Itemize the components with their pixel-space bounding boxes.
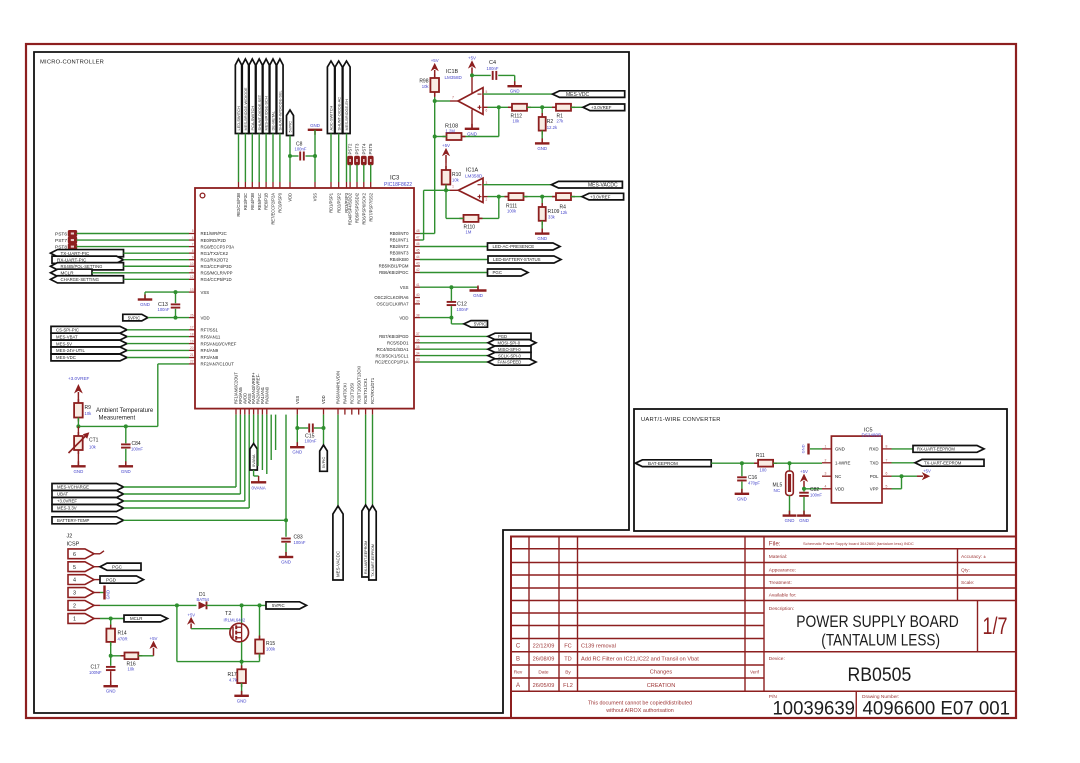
svg-text:RD5/PSP5/SDI2: RD5/PSP5/SDI2 — [355, 192, 360, 223]
svg-text:GND: GND — [510, 89, 520, 94]
svg-text:+3.0VREF: +3.0VREF — [590, 194, 611, 199]
svg-text:1M: 1M — [466, 230, 472, 235]
svg-text:Changes: Changes — [650, 670, 673, 676]
svg-text:1/7: 1/7 — [983, 613, 1008, 640]
svg-text:RG4/CCP5/P1D: RG4/CCP5/P1D — [201, 277, 232, 282]
svg-text:RE0/RD/P2D: RE0/RD/P2D — [201, 238, 226, 243]
svg-text:45: 45 — [416, 249, 420, 253]
svg-text:10: 10 — [190, 262, 194, 266]
svg-text:RB5/KBI1/PGM: RB5/KBI1/PGM — [379, 264, 409, 269]
svg-text:VDD: VDD — [201, 315, 210, 320]
svg-text:RD2/PSP2: RD2/PSP2 — [336, 192, 341, 213]
svg-text:POWER SUPPLY BOARD: POWER SUPPLY BOARD — [796, 612, 959, 631]
svg-text:RF7/SS1: RF7/SS1 — [201, 328, 219, 333]
svg-text:RB2/INT2: RB2/INT2 — [390, 244, 409, 249]
svg-text:+5V: +5V — [923, 469, 931, 474]
svg-text:RF2/AN7/C1OUT: RF2/AN7/C1OUT — [201, 362, 235, 367]
svg-text:Scale:: Scale: — [961, 580, 974, 586]
svg-text:NC: NC — [835, 474, 841, 479]
svg-text:RB0/INT0: RB0/INT0 — [390, 231, 409, 236]
svg-text:GND: GND — [292, 450, 302, 455]
svg-text:PST2: PST2 — [348, 143, 353, 155]
svg-text:FAN-SPEED: FAN-SPEED — [498, 360, 522, 365]
svg-text:Date: Date — [538, 670, 548, 676]
svg-text:5VPIC: 5VPIC — [128, 315, 140, 320]
svg-text:Material:: Material: — [769, 554, 787, 560]
svg-text:+3.0VREF: +3.0VREF — [57, 499, 77, 504]
svg-text:Verif: Verif — [750, 670, 760, 675]
svg-text:38: 38 — [416, 313, 420, 317]
svg-text:Description:: Description: — [769, 606, 794, 612]
svg-text:10039639: 10039639 — [773, 699, 856, 720]
svg-text:BATTERY-TEMP: BATTERY-TEMP — [57, 518, 90, 523]
svg-text:RB4/KBI0: RB4/KBI0 — [390, 257, 409, 262]
svg-text:Add RC Filter on IC21,IC22 and: Add RC Filter on IC21,IC22 and Transil o… — [581, 657, 699, 663]
svg-text:without AIROX authorisation: without AIROX authorisation — [605, 708, 673, 714]
svg-text:3: 3 — [73, 591, 76, 597]
svg-text:PIC18F8622: PIC18F8622 — [384, 182, 412, 188]
svg-text:MOSI-SPI-0: MOSI-SPI-0 — [498, 341, 521, 346]
svg-text:BAT-EEPROM: BAT-EEPROM — [648, 461, 678, 466]
svg-text:MES-BRIDGE-EH: MES-BRIDGE-EH — [344, 99, 349, 131]
svg-text:By: By — [565, 670, 571, 676]
svg-text:RC7/RX1/DT1: RC7/RX1/DT1 — [370, 377, 375, 404]
svg-text:GND: GND — [835, 447, 845, 452]
svg-text:SCLK-SPI-0: SCLK-SPI-0 — [498, 353, 521, 358]
svg-text:1: 1 — [73, 617, 76, 623]
svg-text:33k: 33k — [548, 215, 556, 220]
svg-text:POL: POL — [870, 474, 879, 479]
svg-text:RG1/TX2/CK2: RG1/TX2/CK2 — [201, 251, 229, 256]
svg-text:VDD: VDD — [288, 193, 293, 202]
svg-text:26/08/09: 26/08/09 — [533, 657, 555, 663]
svg-text:ICSP: ICSP — [67, 542, 80, 548]
svg-text:12k: 12k — [561, 210, 569, 215]
svg-text:470pF: 470pF — [748, 480, 760, 485]
svg-text:Rev: Rev — [514, 670, 523, 676]
svg-text:9: 9 — [192, 255, 194, 259]
svg-text:+5V: +5V — [800, 469, 808, 474]
svg-text:18: 18 — [190, 332, 194, 336]
svg-text:DS2480B: DS2480B — [862, 432, 882, 437]
svg-text:GND: GND — [74, 469, 84, 474]
svg-text:44: 44 — [416, 255, 420, 259]
svg-text:RC6/TX1/CK1: RC6/TX1/CK1 — [363, 377, 368, 404]
svg-text:PGD: PGD — [498, 334, 507, 339]
svg-text:RG3/CCP4/P3D: RG3/CCP4/P3D — [201, 264, 232, 269]
svg-text:J2: J2 — [67, 534, 73, 540]
svg-text:GND: GND — [801, 444, 806, 453]
svg-text:IRLML6402: IRLML6402 — [224, 617, 246, 622]
svg-text:MES-24V-UTIL: MES-24V-UTIL — [56, 348, 86, 353]
svg-text:RG0/ECCP3 P3A: RG0/ECCP3 P3A — [201, 244, 235, 249]
svg-text:2: 2 — [825, 458, 827, 462]
svg-text:RC4/SDI1/SDA1: RC4/SDI1/SDA1 — [377, 347, 409, 352]
svg-text:RA0/AN0: RA0/AN0 — [264, 386, 269, 404]
svg-text:RB7/KBI3/PGD: RB7/KBI3/PGD — [379, 334, 408, 339]
svg-text:(TANTALUM LESS): (TANTALUM LESS) — [821, 631, 940, 650]
svg-text:7: 7 — [452, 95, 454, 99]
svg-text:35: 35 — [416, 345, 420, 349]
svg-text:47: 47 — [416, 236, 420, 240]
svg-text:PCA-SWITCH: PCA-SWITCH — [250, 106, 255, 131]
svg-text:LED-AC-PRESENCE: LED-AC-PRESENCE — [493, 244, 535, 249]
svg-text:100k: 100k — [266, 647, 276, 652]
svg-text:CHARGE-SETTING: CHARGE-SETTING — [61, 277, 100, 282]
svg-text:MISO-SPI-0: MISO-SPI-0 — [498, 347, 521, 352]
svg-text:Available for:: Available for: — [769, 593, 797, 599]
svg-text:RF5/AN10/CVREF: RF5/AN10/CVREF — [201, 341, 237, 346]
svg-text:MICRO-CONTROLLER: MICRO-CONTROLLER — [40, 60, 104, 66]
svg-text:RC3/SCK1/SCL1: RC3/SCK1/SCL1 — [376, 353, 410, 358]
svg-text:TD: TD — [564, 657, 571, 663]
svg-text:PGC: PGC — [112, 564, 123, 569]
svg-text:FL2: FL2 — [563, 683, 573, 689]
svg-text:LM358D: LM358D — [445, 75, 463, 80]
svg-text:SHUNT-DIODE-AC: SHUNT-DIODE-AC — [336, 97, 341, 131]
svg-text:RE5/P1C: RE5/P1C — [257, 193, 262, 210]
svg-text:RS485/POL-SETTING: RS485/POL-SETTING — [61, 264, 103, 269]
svg-text:7: 7 — [886, 458, 888, 462]
svg-text:GND: GND — [467, 131, 477, 136]
svg-text:22: 22 — [190, 360, 194, 364]
svg-text:8: 8 — [886, 444, 888, 448]
svg-text:10k: 10k — [422, 84, 430, 89]
svg-text:+5V: +5V — [150, 636, 158, 641]
svg-text:100nF: 100nF — [158, 307, 170, 312]
svg-text:MES-VACDC: MES-VACDC — [336, 551, 341, 577]
svg-text:37: 37 — [416, 332, 420, 336]
svg-text:GND: GND — [799, 518, 809, 523]
svg-text:RG5/MCLR/VPP: RG5/MCLR/VPP — [201, 271, 233, 276]
svg-text:LM358D: LM358D — [465, 174, 483, 179]
svg-text:27k: 27k — [557, 119, 565, 124]
svg-text:C: C — [516, 644, 521, 650]
svg-text:1-WIRE: 1-WIRE — [835, 461, 850, 466]
svg-text:RD4/PSP4/SDO2: RD4/PSP4/SDO2 — [348, 192, 353, 225]
svg-text:R11: R11 — [756, 453, 765, 459]
svg-text:TXD: TXD — [870, 461, 879, 466]
svg-text:Treatment:: Treatment: — [769, 580, 792, 586]
svg-text:0VANA: 0VANA — [252, 486, 266, 491]
svg-text:VPP: VPP — [870, 487, 879, 492]
svg-text:+3.0VREF: +3.0VREF — [591, 105, 612, 110]
svg-text:SHUNT-W/DIODE-SEL: SHUNT-W/DIODE-SEL — [278, 89, 283, 130]
svg-text:TX-UART-EEPROM: TX-UART-EEPROM — [371, 544, 375, 577]
svg-text:MES-BRIDGE-SCH: MES-BRIDGE-SCH — [264, 96, 269, 130]
svg-text:RC0/PSP0: RC0/PSP0 — [278, 192, 283, 213]
svg-text:48: 48 — [416, 229, 420, 233]
svg-text:T2: T2 — [225, 611, 231, 617]
svg-text:1: 1 — [825, 444, 827, 448]
svg-text:PST3: PST3 — [355, 143, 360, 155]
svg-text:GND: GND — [537, 146, 547, 151]
svg-text:LED-SWITCH: LED-SWITCH — [236, 106, 241, 130]
svg-text:RA4/T0CKI: RA4/T0CKI — [343, 383, 348, 404]
svg-text:10k: 10k — [89, 445, 97, 450]
svg-text:100nF: 100nF — [487, 66, 499, 71]
svg-text:OSC2/CLKO/RA6: OSC2/CLKO/RA6 — [374, 295, 409, 300]
svg-text:2: 2 — [73, 604, 76, 610]
svg-text:GND: GND — [537, 236, 547, 241]
svg-text:MES-5V: MES-5V — [56, 341, 72, 346]
svg-text:Measurement: Measurement — [99, 416, 136, 422]
svg-text:100nF: 100nF — [295, 147, 307, 152]
svg-text:PGD: PGD — [106, 577, 117, 582]
svg-text:TX-UART-EEPROM: TX-UART-EEPROM — [924, 461, 962, 466]
svg-text:4: 4 — [73, 578, 76, 584]
svg-text:VDD: VDD — [399, 315, 408, 320]
svg-text:VSS: VSS — [201, 290, 210, 295]
svg-text:100: 100 — [760, 467, 768, 472]
svg-text:RE1/WR/P2C: RE1/WR/P2C — [201, 231, 227, 236]
svg-text:RE4/P3B: RE4/P3B — [250, 193, 255, 210]
svg-text:B: B — [516, 657, 520, 663]
svg-text:MES-VDC: MES-VDC — [566, 92, 589, 98]
svg-text:RX-UART-EEPROM: RX-UART-EEPROM — [364, 541, 368, 574]
svg-text:IC1B: IC1B — [446, 69, 459, 75]
svg-text:ADC-SWITCH: ADC-SWITCH — [329, 105, 334, 130]
svg-text:GND: GND — [785, 518, 795, 523]
svg-text:This document cannot be copied: This document cannot be copied/distribut… — [588, 701, 692, 707]
svg-text:RX-UART-EEPROM: RX-UART-EEPROM — [917, 447, 955, 452]
svg-text:470R: 470R — [118, 636, 128, 641]
svg-text:5VPIC: 5VPIC — [321, 457, 326, 469]
svg-text:34: 34 — [416, 351, 420, 355]
svg-text:12.2k: 12.2k — [547, 125, 558, 130]
svg-text:UBAT: UBAT — [57, 492, 69, 497]
svg-text:MES-VACDC: MES-VACDC — [588, 182, 618, 188]
svg-text:MES-3.3V: MES-3.3V — [57, 506, 77, 511]
svg-text:+5V: +5V — [442, 143, 450, 148]
svg-text:VSS: VSS — [400, 285, 409, 290]
svg-text:41: 41 — [416, 283, 420, 287]
svg-text:VSS: VSS — [295, 396, 300, 404]
svg-text:TX-UART-PIC: TX-UART-PIC — [61, 251, 90, 256]
svg-text:40: 40 — [416, 293, 420, 297]
svg-text:VSS: VSS — [313, 193, 318, 201]
svg-text:BAT54: BAT54 — [197, 597, 210, 602]
svg-text:GND: GND — [121, 469, 131, 474]
svg-text:RE2/CS/P3B: RE2/CS/P3B — [236, 193, 241, 217]
svg-text:GND: GND — [106, 689, 116, 694]
svg-text:+3.0VREF: +3.0VREF — [68, 376, 90, 381]
svg-text:100nF: 100nF — [131, 447, 143, 452]
svg-text:NC: NC — [774, 488, 781, 493]
svg-text:10k: 10k — [128, 667, 136, 672]
svg-text:MCLR: MCLR — [130, 616, 142, 621]
svg-text:5: 5 — [73, 565, 76, 571]
svg-text:GND: GND — [737, 496, 747, 501]
svg-text:6: 6 — [886, 472, 888, 476]
svg-text:RE3/P3C: RE3/P3C — [243, 193, 248, 210]
svg-text:PST5: PST5 — [368, 143, 373, 155]
svg-text:+5V: +5V — [468, 55, 476, 60]
svg-text:1: 1 — [452, 185, 454, 189]
svg-text:21: 21 — [190, 353, 194, 357]
svg-text:VDD: VDD — [835, 487, 844, 492]
svg-text:Ambient Temperature: Ambient Temperature — [96, 408, 154, 414]
svg-text:RB1/INT1: RB1/INT1 — [390, 238, 409, 243]
svg-text:10k: 10k — [452, 178, 460, 183]
svg-text:36: 36 — [416, 339, 420, 343]
svg-text:Qty:: Qty: — [961, 568, 970, 574]
svg-text:100NF: 100NF — [89, 670, 102, 675]
svg-text:Schematic Power Supply board 3: Schematic Power Supply board 3642600 (ta… — [803, 541, 914, 546]
svg-text:12: 12 — [190, 275, 194, 279]
svg-text:6: 6 — [192, 236, 194, 240]
svg-text:RE6/P1B: RE6/P1B — [264, 193, 269, 210]
svg-text:A: A — [516, 683, 520, 689]
svg-text:20: 20 — [190, 346, 194, 350]
svg-text:5VPIC: 5VPIC — [288, 121, 293, 133]
svg-text:100nF: 100nF — [810, 492, 822, 497]
svg-text:26/05/09: 26/05/09 — [533, 683, 555, 689]
svg-text:22/12/09: 22/12/09 — [533, 644, 555, 650]
svg-text:IC3: IC3 — [390, 176, 400, 182]
svg-text:SHUNT-DIODE-SET: SHUNT-DIODE-SET — [257, 94, 262, 130]
svg-text:1.2M: 1.2M — [446, 129, 456, 134]
svg-text:MES-BRIDGE-W/DIODE: MES-BRIDGE-W/DIODE — [243, 87, 248, 130]
svg-text:100nF: 100nF — [305, 439, 317, 444]
svg-text:PST7: PST7 — [55, 238, 67, 244]
svg-text:19: 19 — [190, 339, 194, 343]
svg-text:DE-METAL: DE-METAL — [271, 110, 276, 130]
svg-text:RX-UART-PIC: RX-UART-PIC — [57, 257, 87, 262]
svg-text:4: 4 — [825, 484, 827, 488]
svg-text:RXD: RXD — [869, 447, 878, 452]
svg-text:26: 26 — [190, 313, 194, 317]
svg-text:IC1A: IC1A — [466, 167, 479, 173]
svg-text:MES-VBAT: MES-VBAT — [56, 334, 78, 339]
svg-text:RC0/T1OSO/T13CKI: RC0/T1OSO/T13CKI — [356, 366, 361, 404]
svg-text:10k: 10k — [513, 119, 521, 124]
svg-text:RB6/KBI2/PGC: RB6/KBI2/PGC — [379, 270, 408, 275]
svg-text:6: 6 — [486, 109, 488, 113]
svg-text:RB3/INT3: RB3/INT3 — [390, 251, 409, 256]
svg-text:RA5/AN4/HLVDIN: RA5/AN4/HLVDIN — [336, 371, 341, 404]
svg-text:Accuracy: ±: Accuracy: ± — [961, 554, 986, 560]
svg-text:RF3/AN8: RF3/AN8 — [201, 355, 219, 360]
svg-text:PGC: PGC — [493, 270, 503, 275]
svg-text:GND: GND — [106, 590, 111, 599]
svg-text:RC5/SDO1: RC5/SDO1 — [387, 341, 409, 346]
svg-text:+5V: +5V — [431, 58, 439, 63]
svg-text:43: 43 — [416, 262, 420, 266]
svg-text:4096600 E07 001: 4096600 E07 001 — [863, 699, 1011, 720]
svg-text:CT1: CT1 — [89, 438, 99, 444]
svg-text:5: 5 — [192, 229, 194, 233]
svg-text:GND: GND — [237, 698, 247, 703]
svg-text:3: 3 — [825, 472, 827, 476]
svg-text:C139 removal: C139 removal — [581, 644, 616, 650]
svg-text:MCLR: MCLR — [61, 271, 75, 276]
svg-text:RG2/RX2/DT2: RG2/RX2/DT2 — [201, 257, 229, 262]
svg-text:RC2/ECCP1/P1A: RC2/ECCP1/P1A — [375, 360, 409, 365]
svg-text:RD1/PSP1: RD1/PSP1 — [329, 192, 334, 213]
svg-text:42: 42 — [416, 268, 420, 272]
svg-text:CS-SPI-PIC: CS-SPI-PIC — [56, 328, 79, 333]
svg-text:17: 17 — [190, 326, 194, 330]
svg-text:FC: FC — [564, 644, 571, 650]
svg-text:MES-VCHARGE: MES-VCHARGE — [57, 485, 89, 490]
svg-text:PST6: PST6 — [55, 232, 67, 238]
svg-text:LED-BATTERY-STATUS: LED-BATTERY-STATUS — [493, 257, 541, 262]
svg-text:5VPIC: 5VPIC — [474, 322, 486, 327]
svg-text:File:: File: — [769, 541, 781, 548]
svg-text:UART/1-WIRE CONVERTER: UART/1-WIRE CONVERTER — [641, 417, 721, 423]
svg-text:33: 33 — [416, 358, 420, 362]
svg-text:2: 2 — [486, 198, 488, 202]
svg-text:11: 11 — [190, 269, 194, 273]
svg-text:100nF: 100nF — [294, 540, 306, 545]
svg-text:13: 13 — [190, 288, 194, 292]
svg-text:8: 8 — [192, 249, 194, 253]
svg-text:Device:: Device: — [769, 656, 785, 662]
svg-text:100k: 100k — [507, 209, 517, 214]
svg-text:+5V: +5V — [188, 612, 196, 617]
svg-text:RF6/AN11: RF6/AN11 — [201, 334, 221, 339]
svg-text:VDD: VDD — [321, 395, 326, 404]
svg-text:OSC1/CLKI/RA7: OSC1/CLKI/RA7 — [376, 302, 409, 307]
svg-text:0VANA: 0VANA — [251, 454, 256, 467]
svg-text:RD7/PSP7/SS2: RD7/PSP7/SS2 — [368, 192, 373, 221]
svg-text:7: 7 — [192, 242, 194, 246]
svg-text:RD6/PSP6/SCK2: RD6/PSP6/SCK2 — [361, 192, 366, 224]
svg-text:CREATION: CREATION — [647, 683, 676, 689]
svg-text:Appearance:: Appearance: — [769, 568, 796, 574]
svg-text:10k: 10k — [85, 411, 93, 416]
svg-text:5: 5 — [886, 484, 888, 488]
svg-text:RE7/ECCP2/P2A: RE7/ECCP2/P2A — [271, 193, 276, 225]
svg-text:RB0505: RB0505 — [848, 665, 912, 686]
svg-text:RC1/T1OSI: RC1/T1OSI — [349, 383, 354, 404]
svg-text:4.7k: 4.7k — [229, 677, 238, 682]
svg-text:5VPIC: 5VPIC — [272, 603, 285, 608]
svg-text:46: 46 — [416, 242, 420, 246]
svg-text:GND: GND — [281, 560, 291, 565]
svg-text:MES-VDC: MES-VDC — [56, 355, 76, 360]
svg-text:GND: GND — [140, 302, 150, 307]
svg-text:GND: GND — [310, 123, 320, 128]
svg-text:PST4: PST4 — [361, 143, 366, 155]
svg-text:100nF: 100nF — [457, 307, 469, 312]
svg-text:39: 39 — [416, 300, 420, 304]
svg-text:GND: GND — [473, 293, 483, 298]
svg-text:6: 6 — [73, 552, 76, 558]
svg-text:RF4/AN9: RF4/AN9 — [201, 348, 219, 353]
